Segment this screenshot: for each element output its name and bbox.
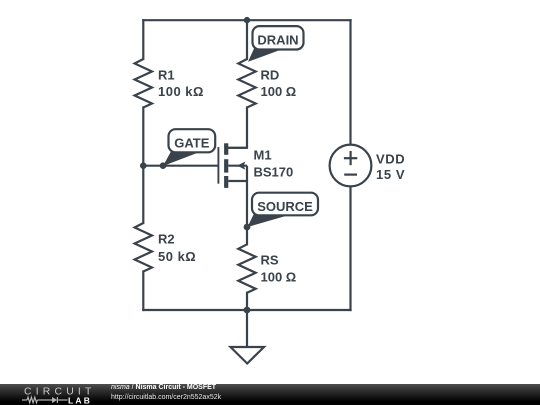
wire left rail upper bbox=[142, 20, 144, 59]
node bottom junction bbox=[244, 307, 251, 314]
svg-text:M1: M1 bbox=[254, 148, 272, 163]
resistor RD bbox=[238, 59, 296, 108]
svg-text:BS170: BS170 bbox=[254, 165, 294, 180]
callout SOURCE bbox=[248, 193, 319, 227]
wire left rail lower bbox=[142, 272, 144, 311]
wire source to RS bbox=[246, 227, 248, 244]
node source anchor bbox=[244, 224, 251, 231]
wire left rail middle bbox=[142, 108, 144, 224]
svg-text:100 Ω: 100 Ω bbox=[261, 269, 297, 284]
node gate anchor bbox=[160, 162, 167, 169]
wire right rail lower bbox=[349, 186, 351, 310]
wire RS to bottom bbox=[246, 293, 248, 310]
svg-text:R2: R2 bbox=[158, 231, 175, 246]
footer title text bbox=[111, 384, 216, 391]
svg-text:50 kΩ: 50 kΩ bbox=[158, 249, 196, 264]
svg-text:SOURCE: SOURCE bbox=[257, 199, 313, 214]
callout GATE bbox=[163, 129, 215, 166]
svg-text:100 Ω: 100 Ω bbox=[261, 84, 297, 99]
wire drain bbox=[228, 108, 247, 148]
wire source node bbox=[246, 181, 248, 227]
node gate junction bbox=[140, 162, 147, 169]
resistor R1 bbox=[135, 59, 204, 108]
svg-text:RS: RS bbox=[261, 253, 279, 268]
svg-text:VDD: VDD bbox=[376, 151, 405, 166]
svg-text:100 kΩ: 100 kΩ bbox=[158, 84, 204, 99]
svg-text:15 V: 15 V bbox=[376, 167, 405, 182]
ground bbox=[231, 347, 265, 364]
svg-text:RD: RD bbox=[261, 67, 280, 82]
svg-text:GATE: GATE bbox=[174, 136, 209, 151]
svg-text:R1: R1 bbox=[158, 67, 175, 82]
resistor R2 bbox=[135, 223, 197, 272]
callout DRAIN bbox=[248, 26, 304, 62]
resistor RS bbox=[238, 244, 296, 292]
wire right rail upper bbox=[349, 20, 351, 144]
wire ground stub bbox=[246, 310, 248, 347]
wire top rail bbox=[143, 19, 350, 21]
transistor M1 bbox=[218, 143, 293, 188]
CircuitLab logo bbox=[0, 384, 100, 405]
wire gate bbox=[143, 165, 217, 167]
wire middle upper bbox=[246, 20, 248, 59]
source V1 VDD bbox=[330, 145, 406, 187]
svg-text:LAB: LAB bbox=[68, 395, 92, 405]
wire bottom rail bbox=[143, 309, 350, 311]
svg-text:DRAIN: DRAIN bbox=[257, 33, 298, 48]
footer url text bbox=[111, 394, 221, 401]
node top junction bbox=[244, 17, 250, 23]
